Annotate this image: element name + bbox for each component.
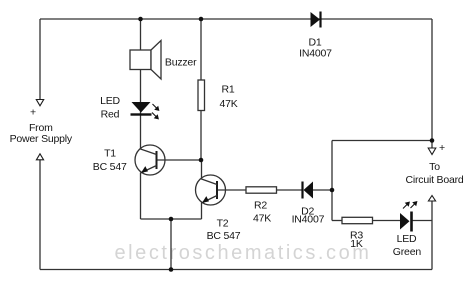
node buzzer top xyxy=(138,17,143,22)
wire left drop from top rail to power supply + terminal xyxy=(39,19,41,100)
svg-text:LED: LED xyxy=(397,233,417,245)
wire R3 to LED green xyxy=(373,220,401,222)
wire node C to R3 xyxy=(332,220,342,222)
svg-text:R2: R2 xyxy=(254,200,267,212)
LED D_red (red indicator LED) xyxy=(131,102,152,116)
node B (R1 / T1 base / T2 collector) xyxy=(199,158,204,163)
node C (D2 / R3 / output) xyxy=(330,188,335,193)
wire D2 to node C xyxy=(313,189,332,191)
svg-text:+: + xyxy=(30,107,36,119)
svg-text:LED: LED xyxy=(100,95,120,107)
svg-text:T1: T1 xyxy=(104,148,116,160)
wire T1 base to node B xyxy=(157,159,202,161)
wire emitter bottom connector xyxy=(141,218,202,220)
wire node C up xyxy=(331,141,333,191)
wire R1 branch upper xyxy=(200,19,202,80)
svg-text:Red: Red xyxy=(101,109,120,121)
LED red emission arrows xyxy=(152,104,159,119)
transistor T1 xyxy=(135,145,165,175)
svg-text:Circuit Board: Circuit Board xyxy=(405,174,463,186)
LED D_green (green indicator LED) xyxy=(400,212,412,232)
resistor R2 xyxy=(246,187,277,193)
wire right rail xyxy=(431,19,433,148)
wire bottom rail xyxy=(40,269,432,271)
node emitter junction xyxy=(169,217,174,222)
wire R1 to node B xyxy=(200,111,202,161)
node bottom rail junction xyxy=(169,267,174,272)
wire left riser from lower arrow to bottom rail xyxy=(39,160,41,270)
terminal arrow: power supply + (down) xyxy=(36,100,43,106)
wire node C to right rail xyxy=(332,140,432,142)
svg-text:47K: 47K xyxy=(253,213,271,225)
terminal arrow: circuit board return (up) xyxy=(428,196,435,202)
svg-text:R1: R1 xyxy=(221,83,234,95)
LED green emission arrows xyxy=(403,202,417,209)
node R1 top xyxy=(199,17,204,22)
wire center ground drop xyxy=(170,219,172,270)
wire LED green to right riser xyxy=(413,220,433,222)
svg-text:BC 547: BC 547 xyxy=(93,161,127,173)
terminal arrow: power supply - (up) xyxy=(36,154,43,160)
svg-text:47K: 47K xyxy=(219,98,237,110)
svg-text:To: To xyxy=(429,161,440,173)
wire node B down to T2 collector xyxy=(201,160,203,180)
resistor R3 xyxy=(342,217,373,223)
junction node dots xyxy=(138,17,434,272)
svg-text:IN4007: IN4007 xyxy=(292,214,325,226)
svg-text:From: From xyxy=(29,122,53,134)
svg-text:electroschematics.com: electroschematics.com xyxy=(115,242,372,264)
node right rail output xyxy=(430,138,435,143)
wire top rail xyxy=(40,18,432,20)
diode D1 xyxy=(311,12,321,28)
svg-text:IN4007: IN4007 xyxy=(299,48,332,60)
wire right riser to bottom rail xyxy=(431,201,433,270)
wire T2 emitter down xyxy=(201,203,203,220)
svg-text:Green: Green xyxy=(393,246,422,258)
wire node C down xyxy=(331,190,333,221)
terminal arrow: circuit board + (down) xyxy=(428,148,436,155)
wire R2 to D2 xyxy=(277,189,303,191)
svg-text:BC 547: BC 547 xyxy=(207,230,241,242)
svg-text:Power Supply: Power Supply xyxy=(10,133,73,145)
svg-text:1K: 1K xyxy=(350,238,363,250)
buzzer xyxy=(130,41,161,80)
wire buzzer/LED branch upper xyxy=(140,19,142,150)
svg-text:T2: T2 xyxy=(217,217,229,229)
wire T1 emitter down xyxy=(140,173,142,220)
transistor T2 xyxy=(196,175,226,205)
diode D2 xyxy=(303,182,314,199)
resistor R1 xyxy=(198,80,205,111)
svg-text:Buzzer: Buzzer xyxy=(165,56,197,68)
wire T2 base to R2 xyxy=(217,189,246,191)
svg-text:+: + xyxy=(439,142,445,154)
